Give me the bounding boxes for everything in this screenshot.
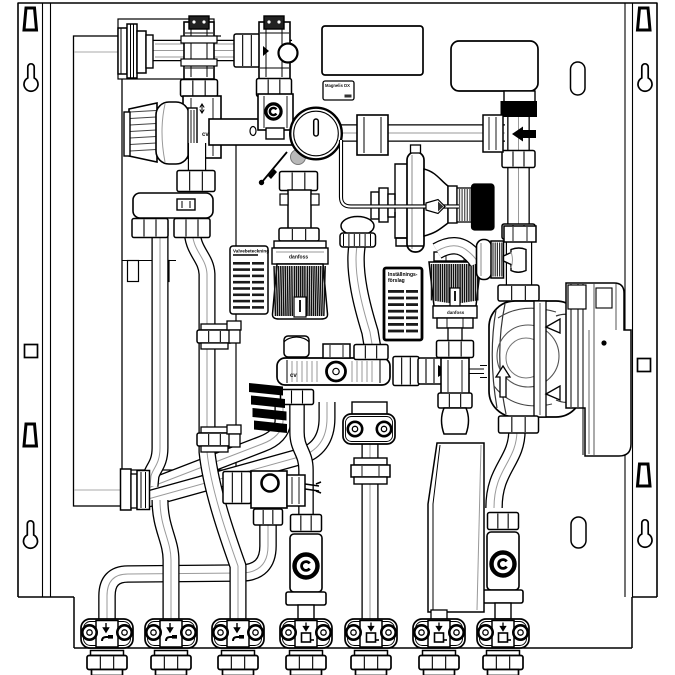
svg-text:förslag: förslag [388,278,405,284]
svg-text:cv: cv [202,132,209,138]
svg-text:danfoss: danfoss [447,310,465,315]
svg-text:Magnelis DX: Magnelis DX [325,83,350,88]
svg-text:Valvebeteckning: Valvebeteckning [233,249,269,254]
svg-text:cv: cv [290,373,297,379]
svg-text:danfoss: danfoss [289,255,308,261]
